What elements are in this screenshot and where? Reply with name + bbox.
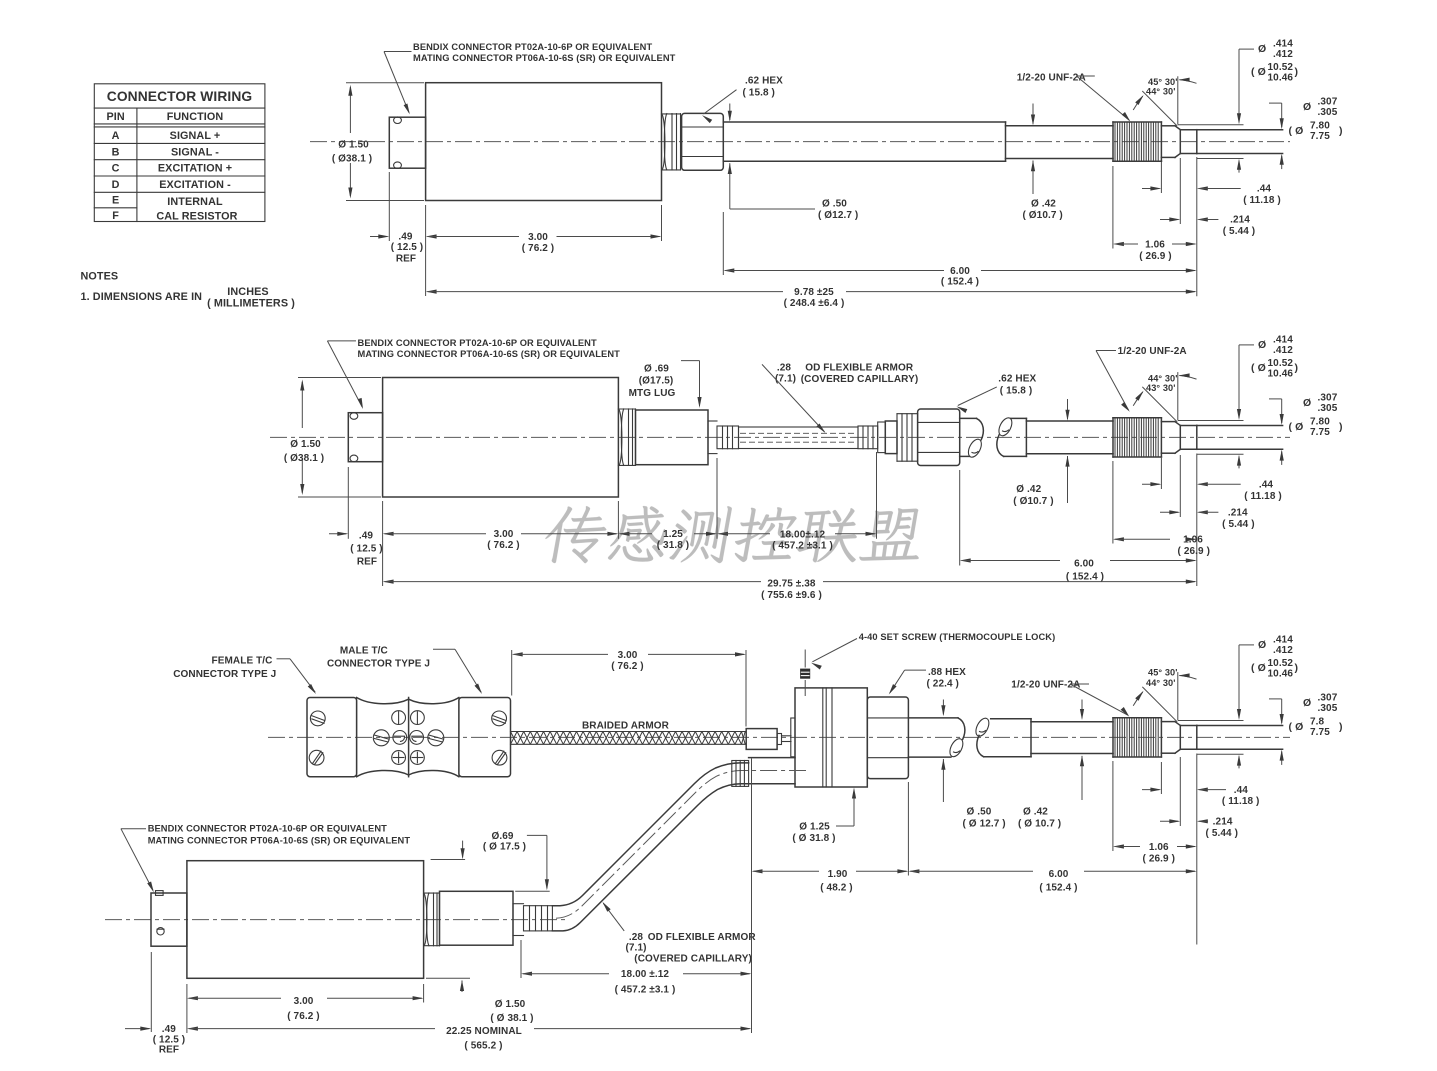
svg-text:( 76.2 ): ( 76.2 )	[487, 540, 519, 551]
D2 lug neck	[708, 421, 717, 454]
svg-text:7.80: 7.80	[1310, 121, 1330, 132]
svg-text:( 5.44 ): ( 5.44 )	[1206, 828, 1238, 839]
D1 sheath tip	[1197, 130, 1283, 154]
svg-text:( Ø38.1 ): ( Ø38.1 )	[284, 453, 324, 464]
svg-text:( 11.18 ): ( 11.18 )	[1243, 195, 1281, 206]
svg-text:): )	[1339, 125, 1343, 137]
D2 mounting lug	[636, 410, 709, 465]
D3 leader .88 HEX	[889, 670, 926, 694]
D2 dim .44	[1142, 479, 1282, 501]
D2 fitting step	[878, 422, 886, 453]
D3 dim 1.90	[752, 869, 909, 894]
svg-text:( 248.4 ±6.4 ): ( 248.4 ±6.4 )	[784, 298, 845, 309]
D1 dia .414 leader	[1237, 49, 1254, 124]
D1 ext hex right	[722, 212, 724, 275]
svg-text:FEMALE T/C: FEMALE T/C	[212, 655, 273, 666]
D2 dim .214	[1160, 508, 1255, 530]
svg-text:.88 HEX: .88 HEX	[928, 667, 966, 678]
svg-text:.412: .412	[1273, 645, 1293, 656]
svg-text:1. DIMENSIONS ARE IN: 1. DIMENSIONS ARE IN	[81, 291, 203, 303]
D1 bellows rings	[662, 114, 681, 170]
svg-text:1.06: 1.06	[1145, 239, 1165, 250]
D1 ext line thread start	[1112, 166, 1114, 249]
svg-text:FUNCTION: FUNCTION	[167, 111, 224, 123]
svg-text:( 76.2 ): ( 76.2 )	[522, 243, 554, 254]
svg-text:( 22.4 ): ( 22.4 )	[927, 678, 959, 689]
D3 TC pin L1	[392, 711, 406, 725]
D2 centerline	[270, 436, 1290, 438]
svg-text:REF: REF	[357, 557, 377, 568]
svg-text:.305: .305	[1318, 107, 1338, 118]
table row E-F	[112, 195, 238, 223]
D3 mounting lug	[440, 891, 514, 945]
D2 shaft segment 1	[960, 418, 977, 456]
svg-text:7.75: 7.75	[1310, 131, 1330, 142]
D2 ext armor end	[876, 452, 878, 539]
D1 leader BENDIX	[384, 52, 412, 115]
svg-text:6.00: 6.00	[1074, 559, 1094, 570]
D3 stem dia .42	[1031, 722, 1113, 754]
D3 label 1/2-20 UNF-2A	[1011, 680, 1129, 717]
D1 dim 6.00	[723, 266, 1197, 287]
svg-text:(7.1): (7.1)	[625, 942, 646, 953]
D3 screw male bottom	[492, 750, 507, 765]
D2 label BENDIX connector	[358, 338, 621, 359]
D2 shaft segment 2	[1004, 418, 1027, 456]
D3 leader dia .69	[527, 835, 549, 890]
svg-text:( 11.18 ): ( 11.18 )	[1222, 796, 1260, 807]
svg-text:(7.1): (7.1)	[775, 373, 796, 384]
svg-text:D: D	[112, 179, 120, 191]
svg-text:Ø: Ø	[1303, 697, 1311, 709]
D2 label .62 HEX	[998, 374, 1036, 397]
D3 label MALE T/C	[327, 645, 430, 669]
D3 label .88 HEX	[927, 667, 967, 689]
D2 dia .414 text	[1251, 334, 1298, 379]
D1 ext body right	[661, 205, 663, 241]
D2 up arrow at tip	[1280, 450, 1284, 465]
svg-text:Ø .69: Ø .69	[644, 363, 669, 374]
D3 dim dia .42 arrows	[1080, 700, 1084, 801]
D1 stem dia .50	[723, 122, 1005, 161]
D2 leader MTG LUG	[681, 361, 702, 408]
note 1	[81, 286, 296, 310]
D3 chamfer edges	[1175, 722, 1180, 754]
D3 hex flats	[867, 718, 908, 758]
svg-text:CAL RESISTOR: CAL RESISTOR	[156, 211, 237, 223]
D3 leader BENDIX	[121, 829, 154, 893]
svg-text:.305: .305	[1318, 403, 1338, 414]
D2 dim 1.06	[1113, 535, 1210, 557]
D3 dim .44	[1142, 785, 1259, 807]
D2 hex flats	[918, 422, 960, 452]
D3 ext line tip bottom	[1197, 753, 1244, 755]
svg-text:BENDIX CONNECTOR PT02A-10-6P: BENDIX CONNECTOR PT02A-10-6P OR EQUIVALE…	[413, 42, 652, 52]
svg-text:( 11.18 ): ( 11.18 )	[1244, 491, 1282, 502]
D2 ext lug end	[716, 458, 718, 539]
D2 angle ref line	[1177, 372, 1179, 420]
D3 TC mating line	[408, 698, 410, 777]
svg-text:7.75: 7.75	[1310, 727, 1330, 738]
svg-text:.214: .214	[1213, 817, 1233, 828]
D2 dim 1.25	[618, 529, 717, 551]
D3 TC hook L	[393, 731, 407, 745]
svg-text:CONNECTOR WIRING: CONNECTOR WIRING	[107, 89, 252, 104]
svg-text:Ø .42: Ø .42	[1016, 484, 1041, 495]
D3 connector shell	[151, 893, 187, 946]
svg-text:): )	[1295, 362, 1299, 374]
svg-text:SIGNAL +: SIGNAL +	[170, 130, 221, 142]
svg-text:1/2-20 UNF-2A: 1/2-20 UNF-2A	[1011, 680, 1080, 691]
svg-text:(Ø17.5): (Ø17.5)	[639, 376, 674, 387]
svg-text:( Ø 31.8 ): ( Ø 31.8 )	[792, 833, 835, 844]
D1 chamfer angle line	[1142, 91, 1177, 126]
D1 ext line tip bottom	[1197, 158, 1244, 160]
D3 dim 3.00 body	[187, 996, 424, 1022]
D2 dia .414 leader	[1237, 345, 1254, 420]
D3 dim 22.25	[187, 1026, 752, 1052]
svg-text:3.00: 3.00	[294, 996, 314, 1007]
svg-text:.412: .412	[1273, 49, 1293, 60]
svg-text:INCHES: INCHES	[227, 286, 268, 298]
D1 label .62 HEX	[743, 76, 784, 99]
D2 armor collar right	[858, 426, 878, 449]
svg-text:Ø 1.50: Ø 1.50	[495, 999, 526, 1010]
D3 dia .414 leader	[1237, 645, 1254, 720]
D2 up arrow at collar ext	[1237, 455, 1241, 469]
D2 dim 3.00	[383, 529, 619, 551]
svg-text:Ø 1.25: Ø 1.25	[799, 822, 830, 833]
D3 ext line thread end	[1160, 762, 1162, 794]
svg-text:.49: .49	[359, 531, 374, 542]
svg-text:( 15.8 ): ( 15.8 )	[743, 87, 775, 98]
D3 dia .307 leader	[1269, 699, 1284, 725]
wiring table grid	[94, 84, 265, 222]
svg-text:.44: .44	[1234, 785, 1249, 796]
svg-text:Ø.69: Ø.69	[491, 831, 513, 842]
svg-text:BENDIX CONNECTOR PT02A-10-6P: BENDIX CONNECTOR PT02A-10-6P OR EQUIVALE…	[358, 338, 597, 348]
D1 hex nut	[682, 113, 724, 170]
D3 dim dia 1.50 up arrow	[460, 980, 464, 992]
svg-text:( Ø: ( Ø	[1251, 66, 1266, 78]
D3 braid end fitting	[746, 729, 777, 750]
D2 stem dia .42	[1026, 421, 1113, 454]
D3 text dia .42	[1018, 807, 1061, 830]
svg-text:3.00: 3.00	[618, 650, 638, 661]
D1 leader .62 HEX	[702, 90, 737, 123]
D3 connector pin circle	[157, 928, 164, 935]
svg-text:45° 30': 45° 30'	[1148, 667, 1178, 677]
D3 adapter plate	[791, 718, 795, 757]
svg-text:.62 HEX: .62 HEX	[745, 76, 783, 87]
D3 leader 4-40	[811, 639, 857, 670]
svg-text:44° 30': 44° 30'	[1148, 373, 1178, 383]
D2 break ellipse 1	[966, 437, 984, 459]
D3 TC contact screw L	[373, 730, 389, 746]
svg-text:OD FLEXIBLE ARMOR: OD FLEXIBLE ARMOR	[805, 362, 914, 373]
D3 braid fitting step	[777, 734, 781, 745]
svg-text:(COVERED CAPILLARY): (COVERED CAPILLARY)	[634, 954, 752, 965]
D3 TC pin R2	[411, 751, 425, 765]
svg-text:3.00: 3.00	[528, 232, 548, 243]
D1 label BENDIX connector	[413, 42, 676, 63]
D1 ext line tip top	[1178, 124, 1244, 126]
svg-text:BENDIX CONNECTOR PT02A-10-6P: BENDIX CONNECTOR PT02A-10-6P OR EQUIVALE…	[148, 824, 387, 834]
svg-text:.414: .414	[1273, 634, 1293, 645]
svg-text:( Ø: ( Ø	[1289, 421, 1304, 433]
svg-text:EXCITATION +: EXCITATION +	[158, 163, 232, 175]
D1 ext body left	[425, 205, 427, 296]
D3 screw male top	[492, 711, 507, 726]
D1 centerline	[310, 141, 1290, 143]
D1 angle ref line	[1177, 76, 1179, 124]
table row A	[112, 130, 221, 142]
D2 hex nut	[918, 409, 960, 466]
D1 dim dia .42 arrows	[1031, 104, 1035, 195]
D2 dim .49	[329, 531, 383, 568]
svg-text:.62 HEX: .62 HEX	[998, 374, 1036, 385]
svg-text:INTERNAL: INTERNAL	[167, 196, 223, 208]
svg-text:E: E	[112, 195, 119, 207]
svg-text:3.00: 3.00	[494, 529, 514, 540]
D2 dim dia 1.50	[284, 380, 324, 496]
D2 dim dia 1.50 ext lines	[298, 378, 381, 498]
D1 dim dia 1.50 ext lines	[346, 83, 424, 201]
svg-text:10.46: 10.46	[1268, 668, 1294, 679]
D2 ext connector left	[347, 467, 349, 539]
D2 chamfer edges	[1175, 422, 1180, 454]
D3 body top ext	[431, 859, 466, 861]
D2 angle text	[1146, 373, 1178, 393]
D3 leader dia 1.25	[836, 788, 856, 827]
svg-text:.214: .214	[1230, 215, 1250, 226]
svg-text:( 755.6 ±9.6 ): ( 755.6 ±9.6 )	[761, 590, 822, 601]
D3 dim 18.00	[521, 969, 752, 995]
D2 break ellipse 2	[996, 416, 1014, 438]
D3 armor bend centerline	[556, 771, 806, 919]
D1 ext line tip start	[1196, 157, 1198, 296]
D2 dia paren text	[1289, 416, 1343, 438]
table header	[106, 111, 223, 123]
D3 angle text	[1146, 667, 1178, 688]
D3 body centerline	[105, 919, 565, 921]
D2 break cap 1	[977, 418, 984, 439]
D3 dim 3.00 braid	[512, 650, 746, 672]
D2 leader .62 HEX	[956, 387, 996, 413]
D2 ext line tip bottom	[1197, 453, 1244, 455]
D3 set screw axis	[804, 650, 806, 697]
D2 step to dia .42	[1025, 418, 1027, 456]
D3 text dia .50	[963, 807, 1006, 830]
D2 leader BENDIX	[327, 341, 363, 409]
svg-text:18.00±.12: 18.00±.12	[780, 529, 826, 540]
svg-text:22.25 NOMINAL: 22.25 NOMINAL	[446, 1026, 522, 1037]
svg-text:Ø 1.50: Ø 1.50	[290, 439, 321, 450]
svg-text:Ø: Ø	[1258, 339, 1266, 351]
D1 hex flats	[682, 127, 724, 157]
D3 ext armor start	[520, 940, 522, 978]
svg-text:.307: .307	[1318, 392, 1338, 403]
svg-text:( Ø12.7 ): ( Ø12.7 )	[818, 210, 858, 221]
svg-text:Ø: Ø	[1303, 101, 1311, 113]
svg-text:( Ø38.1 ): ( Ø38.1 )	[332, 154, 372, 165]
D1 dim .44	[1142, 184, 1281, 206]
D3 up arrow at tip	[1280, 750, 1284, 765]
D1 text dia .42	[1023, 199, 1063, 222]
D2 dim dia .42 arrows	[1065, 399, 1069, 503]
D3 dia .414 text	[1251, 634, 1298, 679]
D1 dim dia 1.50	[332, 85, 372, 199]
D3 TC female shell	[307, 698, 357, 777]
svg-text:10.52: 10.52	[1268, 62, 1294, 73]
D1 ext connector left	[388, 172, 390, 241]
D3 armor collar upper	[732, 761, 749, 787]
table title	[107, 89, 252, 104]
svg-text:( 152.4 ): ( 152.4 )	[1066, 571, 1104, 582]
D3 ext connector left	[150, 952, 152, 1032]
D2 dim 6.00	[960, 558, 1197, 582]
svg-text:7.75: 7.75	[1310, 427, 1330, 438]
svg-text:Ø: Ø	[1303, 397, 1311, 409]
D3 thread relief cylinder	[1161, 722, 1175, 754]
svg-text:10.52: 10.52	[1268, 358, 1294, 369]
D3 dim dia 1.50 down arrow	[461, 841, 465, 860]
D2 label .28 OD armor	[775, 362, 918, 385]
D3 angle arc arrows	[1133, 673, 1196, 705]
D1 thread relief cylinder	[1161, 126, 1175, 158]
D3 collar section	[1180, 726, 1197, 750]
svg-text:6.00: 6.00	[1049, 869, 1069, 880]
D3 ext line chamfer	[1179, 757, 1181, 826]
svg-text:.214: .214	[1228, 508, 1248, 519]
D3 screw female top	[310, 711, 325, 726]
svg-text:1.90: 1.90	[828, 869, 848, 880]
D3 TC male shell	[459, 698, 511, 777]
D3 break cap 1	[958, 718, 965, 739]
svg-text:( Ø: ( Ø	[1251, 662, 1266, 674]
svg-text:10.46: 10.46	[1268, 368, 1294, 379]
D3 label 4-40 SET SCREW	[859, 632, 1056, 642]
D3 shaft segment 1	[908, 718, 958, 757]
svg-text:( 26.9 ): ( 26.9 )	[1178, 546, 1210, 557]
svg-text:( 565.2 ): ( 565.2 )	[464, 1041, 502, 1052]
D1 text dia .50	[818, 199, 858, 222]
D3 braided armor sheath	[511, 732, 746, 745]
svg-text:43° 30': 43° 30'	[1146, 383, 1176, 393]
D2 thread 1/2-20 UNF-2A	[1113, 418, 1161, 457]
svg-text:.414: .414	[1273, 39, 1293, 50]
svg-text:( Ø: ( Ø	[1289, 721, 1304, 733]
svg-text:): )	[1295, 662, 1299, 674]
svg-text:18.00 ±.12: 18.00 ±.12	[621, 969, 670, 980]
D3 body bottom ext	[426, 977, 470, 979]
svg-text:.44: .44	[1259, 479, 1274, 490]
svg-text:SIGNAL -: SIGNAL -	[171, 146, 219, 158]
D3 label dia 1.25	[792, 822, 835, 844]
D2 connector shell	[348, 413, 382, 462]
D2 dim 18.00	[717, 529, 877, 551]
svg-text:7.8: 7.8	[1310, 716, 1325, 727]
svg-text:BRAIDED ARMOR: BRAIDED ARMOR	[582, 720, 670, 731]
svg-text:NOTES: NOTES	[81, 271, 119, 283]
svg-text:OD FLEXIBLE ARMOR: OD FLEXIBLE ARMOR	[648, 932, 757, 943]
D1 dim 9.78	[426, 287, 1197, 309]
D2 fitting cylinder	[885, 421, 897, 454]
svg-text:( 457.2 ±3.1 ): ( 457.2 ±3.1 )	[615, 985, 676, 996]
svg-text:.412: .412	[1273, 345, 1293, 356]
D3 dia .307 text	[1303, 692, 1338, 714]
D3 TC contact screw R	[428, 730, 444, 746]
D3 dim 3.00 braid ext	[512, 650, 746, 727]
D3 ext fitting	[751, 759, 753, 1034]
D3 ext body right	[423, 984, 425, 1003]
D1 ext line chamfer	[1179, 158, 1181, 224]
D3 dim 6.00	[908, 869, 1196, 894]
D3 label FEMALE T/C	[173, 655, 276, 680]
D1 angle arc arrows	[1133, 78, 1196, 110]
D1 dia paren text	[1289, 121, 1343, 143]
D1 dim .214	[1160, 215, 1255, 237]
watermark	[541, 506, 928, 563]
D3 set screw	[800, 669, 810, 679]
svg-text:44° 30': 44° 30'	[1146, 87, 1176, 97]
table row C	[112, 163, 233, 175]
notes heading	[81, 271, 119, 283]
D2 chamfer angle line	[1142, 387, 1177, 422]
D3 break ellipse 2	[973, 716, 991, 738]
D3 lock body	[795, 688, 867, 787]
D3 leader MALE	[433, 649, 482, 694]
svg-text:.307: .307	[1318, 692, 1338, 703]
svg-text:Ø 1.50: Ø 1.50	[338, 140, 369, 151]
D1 step dia .50 to .42	[1005, 122, 1007, 161]
D3 upper centerline	[268, 736, 1290, 738]
D3 label dia .69	[483, 831, 526, 852]
svg-text:Ø .42: Ø .42	[1031, 199, 1056, 210]
svg-text:REF: REF	[396, 253, 416, 264]
svg-text:MATING CONNECTOR PT06A-10-6S: MATING CONNECTOR PT06A-10-6S (SR) OR EQU…	[148, 835, 411, 845]
svg-text:MTG LUG: MTG LUG	[629, 388, 676, 399]
svg-text:EXCITATION -: EXCITATION -	[159, 179, 231, 191]
svg-text:( Ø10.7 ): ( Ø10.7 )	[1023, 210, 1063, 221]
svg-text:( Ø 17.5 ): ( Ø 17.5 )	[483, 842, 526, 853]
D3 label BENDIX connector	[148, 824, 411, 846]
D3 ext line tip top	[1178, 720, 1244, 722]
svg-text:Ø .50: Ø .50	[822, 199, 847, 210]
svg-text:.307: .307	[1318, 97, 1338, 108]
svg-text:( 15.8 ): ( 15.8 )	[1000, 385, 1032, 396]
D3 lug top ext	[515, 890, 550, 892]
svg-text:( Ø 38.1 ): ( Ø 38.1 )	[490, 1013, 533, 1024]
D3 dim .214	[1160, 817, 1238, 839]
svg-text:( Ø10.7 ): ( Ø10.7 )	[1013, 496, 1053, 507]
svg-text:1/2-20 UNF-2A: 1/2-20 UNF-2A	[1017, 73, 1086, 84]
svg-text:( 31.8 ): ( 31.8 )	[657, 540, 689, 551]
D3 ext hex right	[907, 782, 909, 876]
svg-text:44° 30': 44° 30'	[1146, 678, 1176, 688]
D3 leader .28	[602, 902, 624, 931]
svg-text:( 76.2 ): ( 76.2 )	[287, 1011, 319, 1022]
svg-text:PIN: PIN	[106, 111, 124, 123]
D1 angle text	[1146, 77, 1178, 97]
D2 ext body right	[617, 501, 619, 539]
svg-text:1.06: 1.06	[1183, 535, 1203, 546]
svg-text:45° 30': 45° 30'	[1148, 77, 1178, 87]
D1 dia .307 leader	[1269, 103, 1284, 129]
D3 lower cylinder	[749, 758, 795, 784]
D3 label .28 OD armor	[625, 932, 756, 964]
D2 text dia .42	[1013, 484, 1053, 507]
